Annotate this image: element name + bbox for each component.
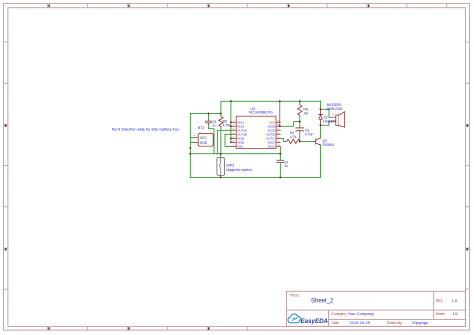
svg-text:1/1: 1/1 [453, 311, 459, 316]
svg-text:IN/1C: IN/1C [268, 145, 275, 149]
svg-text:1.0: 1.0 [452, 298, 458, 303]
junction DIP2 top node [220, 153, 222, 155]
svg-text:OUT/1B: OUT/1B [237, 132, 247, 136]
wire diode top node [321, 109, 332, 117]
svg-text:2N3904: 2N3904 [322, 143, 334, 147]
junction tie at pin 1 [230, 121, 232, 123]
capacitor C5 [205, 120, 216, 128]
svg-text:Drawn By:: Drawn By: [387, 321, 403, 325]
junction buzzer bottom collector node [320, 124, 322, 126]
svg-text:VDD: VDD [269, 120, 275, 124]
wire collector [320, 125, 322, 138]
svg-text:Your Company: Your Company [348, 311, 374, 316]
wire buzzer drop [320, 101, 322, 109]
svg-text:1N4148W: 1N4148W [323, 120, 337, 124]
left pins [232, 122, 236, 146]
wire top VCC rail [221, 100, 321, 102]
svg-text:VSS: VSS [237, 145, 243, 149]
svg-text:OUT/C: OUT/C [266, 137, 274, 141]
wire R6 top [299, 101, 301, 105]
wire C6 bottom [299, 131, 301, 141]
wire pin3 branch [217, 130, 232, 154]
wire pin10 to R4 [280, 138, 286, 141]
junction tie at pin 6 [230, 142, 232, 144]
frame zone digits [48, 5, 369, 330]
resistor R5 [219, 117, 231, 128]
wire battery VCC rail [190, 113, 221, 115]
svg-text:IN/2A: IN/2A [237, 124, 244, 128]
wire diode bottom node [321, 121, 332, 125]
IC U3 MC14093BCPG [232, 107, 280, 148]
junction R6 at top rail [299, 100, 301, 102]
frame ticks left/right [4, 42, 470, 289]
svg-text:2019-10-29: 2019-10-29 [350, 320, 371, 325]
svg-text:4.7uF: 4.7uF [305, 133, 314, 137]
svg-text:IN/1D: IN/1D [268, 128, 275, 132]
svg-text:1u: 1u [284, 164, 288, 168]
svg-text:+: + [332, 113, 334, 117]
svg-text:1M: 1M [303, 111, 308, 115]
svg-text:Magnetic switch: Magnetic switch [226, 168, 252, 172]
wire C5 branch [209, 114, 215, 154]
battery BT2 [193, 126, 213, 146]
wire DIP2 bottom [220, 175, 222, 177]
junction C4 top node [279, 153, 281, 155]
junction DIP2 bottom at ground rail [220, 176, 222, 178]
svg-text:+: + [193, 134, 195, 138]
junction input tie at top rail [230, 100, 232, 102]
capacitor C6 polarized [296, 128, 314, 137]
wire DIP2 top [220, 154, 222, 158]
wire input tie branch [231, 101, 232, 142]
svg-text:WNR-2304: WNR-2304 [327, 107, 343, 111]
svg-text:1u: 1u [213, 123, 217, 127]
junction C4 bottom at ground rail [279, 176, 281, 178]
wire bottom rail [190, 176, 320, 178]
wire Q2 base [301, 140, 314, 142]
transistor Q2 [314, 138, 334, 147]
diode D2 [319, 109, 337, 125]
junction R6 C6 node [299, 121, 301, 123]
junction R5 at VCC rail [220, 113, 222, 115]
wire VDD feed [279, 101, 281, 126]
note text [112, 126, 179, 131]
wire C4 top [279, 146, 281, 160]
wire mid rail [190, 153, 280, 155]
svg-text:IN/1A: IN/1A [237, 120, 244, 124]
right pins [276, 122, 280, 146]
resistor R4 [287, 131, 300, 144]
wire R5 branch [220, 101, 222, 154]
junction tie at pin 2 [230, 125, 232, 127]
frame zone letters [5, 125, 469, 251]
buzzer BUZZER2 [327, 103, 345, 127]
wire pin4 VSS branch [225, 134, 232, 146]
wire left rail [190, 114, 194, 178]
svg-text:MC14093BCPG: MC14093BCPG [249, 111, 273, 115]
svg-text:IN/2B: IN/2B [237, 141, 244, 145]
svg-text:Company:: Company: [332, 312, 348, 316]
svg-text:VCC: VCC [200, 136, 208, 140]
svg-text:IN/1B: IN/1B [237, 137, 244, 141]
svg-text:Sheet_2: Sheet_2 [311, 299, 334, 305]
svg-text:4.7M: 4.7M [223, 123, 231, 127]
junction C6 R4 base node [299, 140, 301, 142]
svg-text:OUT/1A: OUT/1A [237, 128, 247, 132]
svg-text:OUT/D: OUT/D [266, 132, 274, 136]
svg-text:TITLE:: TITLE: [290, 294, 300, 298]
svg-text:BT2: BT2 [198, 126, 204, 130]
svg-text:4.7k: 4.7k [290, 135, 297, 139]
svg-text:REV:: REV: [436, 299, 444, 303]
svg-text:Date:: Date: [332, 321, 340, 325]
junction left rail at mid rail [189, 153, 191, 155]
svg-text:Sheet:: Sheet: [436, 312, 446, 316]
EasyEDA logo [288, 314, 329, 325]
svg-text:GND: GND [200, 141, 208, 145]
junction tie at pin 5 [230, 138, 232, 140]
junction buzzer top node [320, 108, 322, 110]
CIRCUIT [112, 100, 345, 178]
wire C4 bottom [279, 163, 281, 178]
title block [287, 291, 466, 326]
svg-text:EasyEDA: EasyEDA [301, 318, 329, 325]
junction C5 top at VCC rail [208, 113, 210, 115]
wire R6 bottom to C6 [299, 115, 301, 128]
svg-text:IN/2D: IN/2D [268, 124, 275, 128]
reed switch DIP2 [217, 158, 252, 176]
svg-text:20jayngo: 20jayngo [412, 320, 429, 325]
svg-text:No.5 2Section side by side bat: No.5 2Section side by side battery box [112, 126, 179, 131]
junction left rail upper [189, 147, 191, 149]
wire pin13 to RC node [280, 122, 300, 127]
capacitor C4 [277, 160, 288, 168]
resistor R6 [298, 105, 309, 115]
junction pin13 node [279, 125, 281, 127]
junction VDD feed at top rail [279, 100, 281, 102]
wire emitter to ground rail [320, 145, 322, 178]
svg-text:IN/2C: IN/2C [268, 141, 275, 145]
